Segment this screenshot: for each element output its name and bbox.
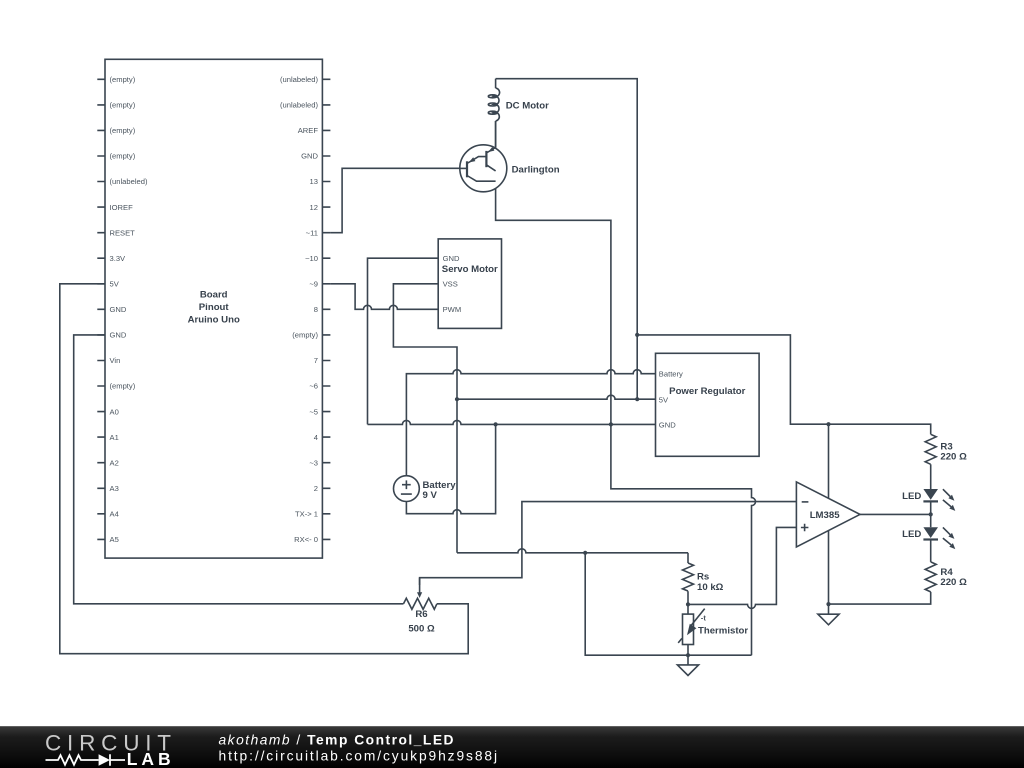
svg-text:A4: A4 xyxy=(110,510,119,519)
wire thermistor bottom stub xyxy=(687,645,689,656)
wire servo VSS down to 5V rail and Rs top xyxy=(393,284,457,553)
wire Rs top stub xyxy=(687,553,689,563)
svg-text:~6: ~6 xyxy=(309,382,318,391)
wire 5V rail to regulator 5V xyxy=(457,395,656,399)
FOOTER xyxy=(0,726,1024,768)
svg-text:(empty): (empty) xyxy=(110,152,136,161)
svg-text:akothamb / Temp Control_LED: akothamb / Temp Control_LED xyxy=(219,732,456,747)
svg-text:A3: A3 xyxy=(110,484,119,493)
svg-text:5V: 5V xyxy=(110,280,120,289)
svg-text:(empty): (empty) xyxy=(110,75,136,84)
svg-text:8: 8 xyxy=(314,305,318,314)
svg-text:Rs: Rs xyxy=(697,571,709,582)
svg-text:~9: ~9 xyxy=(309,280,318,289)
wire LED2 to R4 top xyxy=(930,540,932,562)
wire R4 bottom rail to ground node xyxy=(829,592,931,604)
svg-text:Darlington: Darlington xyxy=(512,165,560,176)
svg-text:5V: 5V xyxy=(659,396,669,405)
svg-text:RX<- 0: RX<- 0 xyxy=(294,535,318,544)
power regulator box U3 xyxy=(656,353,760,456)
svg-text:9 V: 9 V xyxy=(423,490,438,501)
wire op-amp non-inverting input to Rs bottom node xyxy=(688,527,796,608)
CircuitLab logo resistor zigzag xyxy=(46,755,99,765)
resistor R3 220 xyxy=(925,434,967,464)
LED D2 xyxy=(902,527,955,549)
svg-text:LED: LED xyxy=(902,529,921,540)
svg-text:10 kΩ: 10 kΩ xyxy=(697,582,724,593)
battery V1 9V xyxy=(394,476,457,502)
svg-text:220 Ω: 220 Ω xyxy=(940,577,967,588)
wire under op-amp to ground node xyxy=(828,424,830,604)
svg-text:12: 12 xyxy=(310,203,318,212)
svg-text:(empty): (empty) xyxy=(110,126,136,135)
wire Rs bottom to thermistor top xyxy=(687,591,689,614)
wire battery plus to regulator Battery pin xyxy=(406,370,655,476)
svg-text:A0: A0 xyxy=(110,407,119,416)
svg-text:220 Ω: 220 Ω xyxy=(940,452,967,463)
svg-text:(unlabeled): (unlabeled) xyxy=(280,101,318,110)
svg-text:LAB: LAB xyxy=(127,749,175,768)
svg-text:LED: LED xyxy=(902,491,921,502)
svg-text:Thermistor: Thermistor xyxy=(698,626,748,637)
svg-text:(empty): (empty) xyxy=(292,331,318,340)
wire Darlington collector to GND rail and thermistor rail xyxy=(496,171,756,655)
svg-text:A1: A1 xyxy=(110,433,119,442)
svg-text:TX-> 1: TX-> 1 xyxy=(295,510,318,519)
svg-text:GND: GND xyxy=(110,331,127,340)
svg-text:2: 2 xyxy=(314,484,318,493)
wire pin ~11 to Darlington base xyxy=(330,168,467,232)
wire 5V branch to R3 top xyxy=(637,335,931,434)
svg-text:A5: A5 xyxy=(110,535,119,544)
servo motor box U2 xyxy=(438,239,501,329)
svg-text:Vin: Vin xyxy=(110,356,121,365)
wire 5V column to Rs top xyxy=(457,549,688,553)
svg-text:R6: R6 xyxy=(415,609,427,620)
svg-text:Pinout: Pinout xyxy=(199,302,230,313)
wire DC motor top to 5V rail xyxy=(496,79,638,400)
wire board 5V pin to R6 right terminal xyxy=(60,284,468,654)
wire op-amp output to LED node xyxy=(860,513,931,515)
svg-text:DC Motor: DC Motor xyxy=(506,100,549,111)
wire LED1 to LED2 through output node xyxy=(930,501,932,527)
svg-text:500 Ω: 500 Ω xyxy=(408,623,435,634)
wire pot wiper to op-amp inverting input xyxy=(420,502,797,585)
svg-text:Board: Board xyxy=(200,289,228,300)
svg-text:7: 7 xyxy=(314,356,318,365)
svg-text:GND: GND xyxy=(443,254,460,263)
svg-text:~10: ~10 xyxy=(305,254,318,263)
CircuitLab logo diode xyxy=(99,754,110,766)
ground G2 under thermistor xyxy=(677,655,698,675)
potentiometer R6 500 xyxy=(404,578,437,635)
node junction dots xyxy=(455,333,933,658)
thermistor RT1 xyxy=(678,609,748,645)
wire battery minus to GND rail xyxy=(406,424,495,513)
svg-text:~3: ~3 xyxy=(309,458,318,467)
svg-text:(empty): (empty) xyxy=(110,382,136,391)
svg-text:4: 4 xyxy=(314,433,318,442)
svg-text:Battery: Battery xyxy=(659,369,683,378)
svg-text:(unlabeled): (unlabeled) xyxy=(110,177,148,186)
svg-text:3.3V: 3.3V xyxy=(110,254,127,263)
svg-text:A2: A2 xyxy=(110,458,119,467)
svg-text:Power Regulator: Power Regulator xyxy=(669,386,745,397)
svg-text:GND: GND xyxy=(659,421,676,430)
svg-text:VSS: VSS xyxy=(443,280,458,289)
svg-text:RESET: RESET xyxy=(110,228,136,237)
resistor R4 220 xyxy=(925,562,967,592)
wire GND rail to regulator GND xyxy=(368,420,656,424)
footer black bar xyxy=(0,726,1024,768)
svg-text:13: 13 xyxy=(310,177,318,186)
inductor L1 DC Motor xyxy=(488,79,549,148)
svg-text:GND: GND xyxy=(301,152,318,161)
board U1 Arduino Uno pinout box xyxy=(97,59,330,558)
transistor Q1 Darlington xyxy=(460,121,560,192)
svg-text:AREF: AREF xyxy=(298,126,319,135)
svg-text:GND: GND xyxy=(110,305,127,314)
svg-text:(unlabeled): (unlabeled) xyxy=(280,75,318,84)
resistor Rs 10k xyxy=(683,563,724,593)
wire pin ~9 to servo PWM xyxy=(330,284,438,310)
svg-text:-t: -t xyxy=(701,614,707,623)
ground G1 under op-amp output rail xyxy=(818,604,839,625)
svg-text:~11: ~11 xyxy=(306,228,318,237)
LED D1 xyxy=(902,489,955,511)
svg-text:IOREF: IOREF xyxy=(110,203,134,212)
wire R3 bottom to LED1 xyxy=(930,464,932,489)
svg-text:LM385: LM385 xyxy=(810,510,841,521)
svg-text:PWM: PWM xyxy=(443,305,462,314)
wire thermistor bottom rail up to Rs top node xyxy=(585,553,751,655)
svg-text:~5: ~5 xyxy=(309,407,318,416)
op-amp U4 LM385 xyxy=(796,482,860,547)
svg-text:Aruino Uno: Aruino Uno xyxy=(188,315,240,326)
svg-text:(empty): (empty) xyxy=(110,101,136,110)
wire board GND pin to R6 left terminal xyxy=(74,335,404,604)
wire servo GND down to GND rail xyxy=(368,258,439,424)
svg-text:http://circuitlab.com/cyukp9hz: http://circuitlab.com/cyukp9hz9s88j xyxy=(219,749,499,764)
svg-text:Servo Motor: Servo Motor xyxy=(442,264,498,275)
